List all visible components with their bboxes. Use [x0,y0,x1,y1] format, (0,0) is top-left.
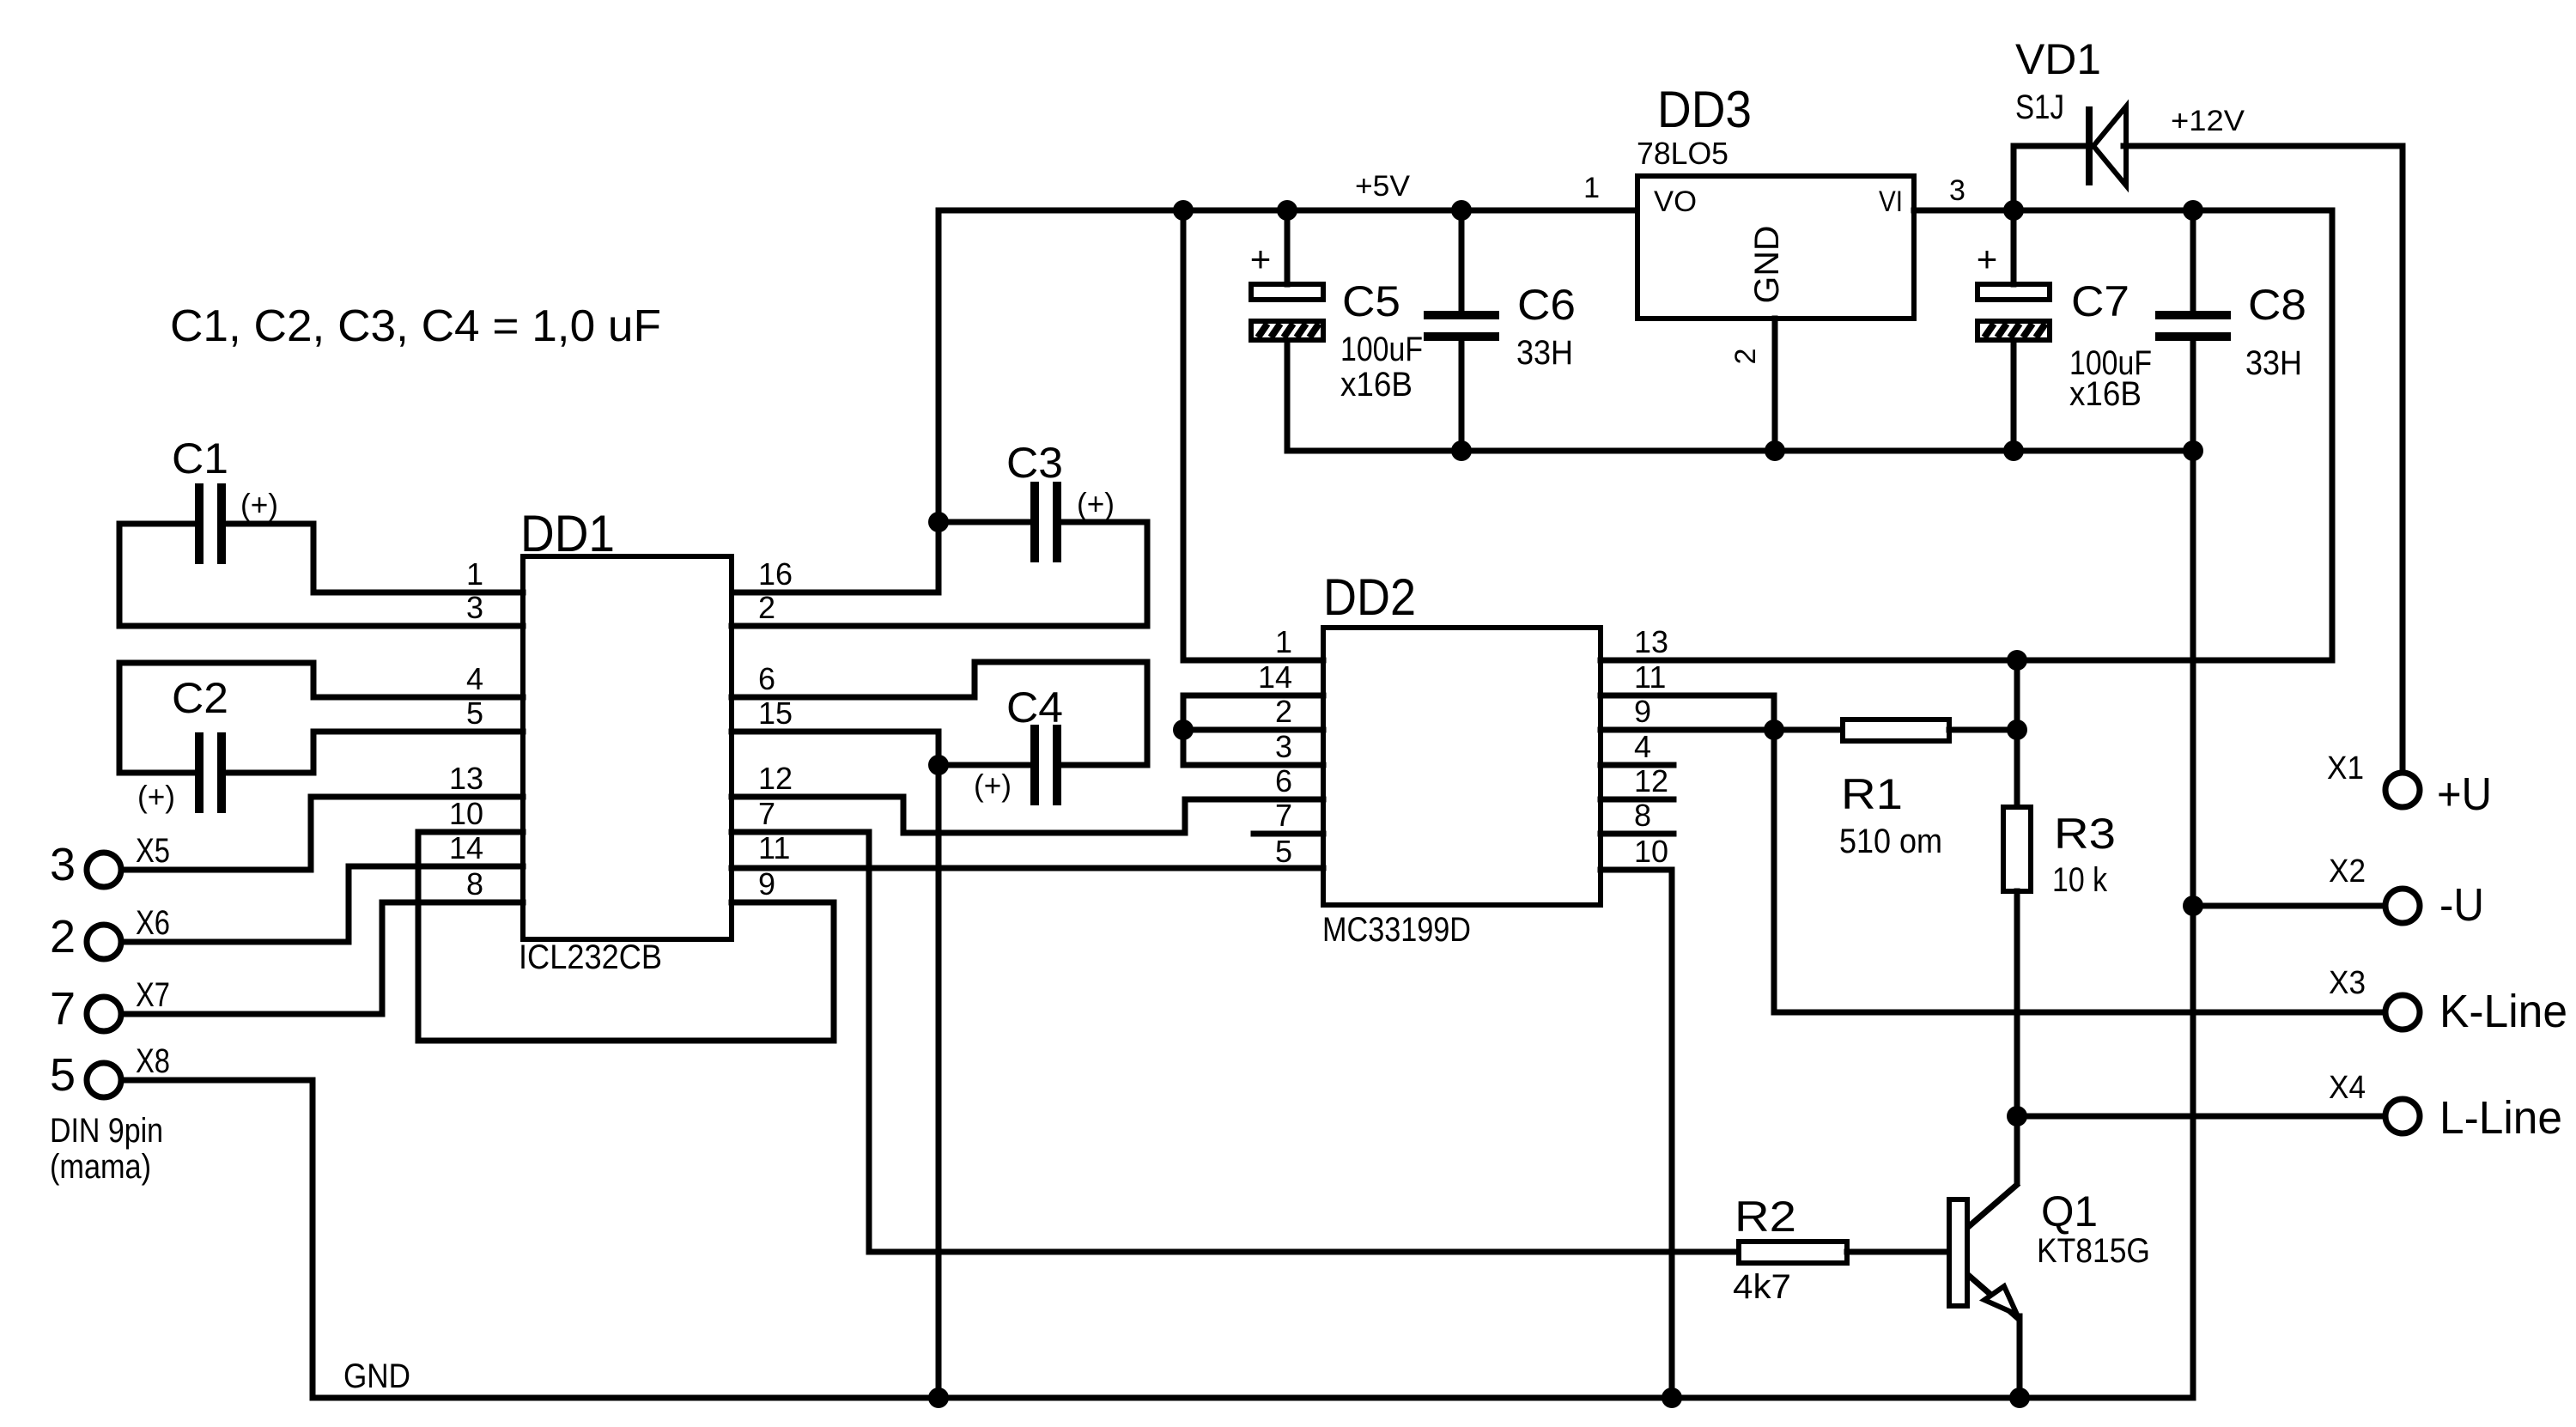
wire X8 to GND rail [125,1080,313,1398]
capacitor C7 [1978,210,2050,451]
label C8 value [2245,344,2302,382]
wire C2 left to pin4 [119,663,523,773]
terminal X5 [87,853,121,887]
wire DD2 pin9 to R1 [1601,727,1843,733]
label C7 voltage [2069,375,2142,413]
regulator DD3 [1637,176,1914,319]
label GND [343,1357,410,1395]
label C7 value [2069,344,2152,382]
label R3 value [2052,861,2108,899]
svg-text:C6: C6 [1517,281,1576,329]
label DD1 pin 6 [758,661,775,696]
label DD2 pin 7 [1275,798,1292,833]
svg-text:X1: X1 [2327,750,2364,786]
svg-text:2: 2 [1729,349,1762,365]
wire R3 riser [2014,660,2020,807]
svg-text:8: 8 [466,866,483,902]
terminal X1 [2385,773,2420,807]
label L-Line [2439,1092,2562,1144]
svg-text:100uF: 100uF [1340,331,1423,368]
svg-text:+: + [1977,239,1998,279]
svg-text:X7: X7 [136,976,170,1014]
svg-text:10: 10 [1634,834,1668,869]
wire X6 to pin14 [125,866,523,942]
svg-text:X2: X2 [2329,853,2366,890]
label DD1 pin 2 [758,590,775,625]
IC DD2 [1323,628,1601,905]
label R2 [1735,1193,1796,1241]
svg-text:GND: GND [1748,226,1786,304]
svg-text:VD1: VD1 [2015,35,2101,83]
svg-text:1: 1 [466,556,483,592]
wire R2 to base [1847,1249,1949,1255]
node VI diode branch [2003,200,2024,221]
label DIN pin 5 [50,1049,76,1101]
wire C1 left to pin3 [119,524,523,626]
svg-text:x16B: x16B [1340,366,1413,404]
label C4 polarity [974,768,1012,803]
capacitor C5 [1251,210,1323,451]
capacitor C4 [1035,725,1057,805]
svg-text:R2: R2 [1735,1193,1796,1241]
svg-text:12: 12 [1634,763,1668,799]
label DD2 pin 4 [1634,729,1651,764]
node VI C8 branch [2183,200,2203,221]
label DD1 pin 7 [758,796,775,831]
node +5V to C5 [1277,200,1297,221]
svg-text:DD1: DD1 [520,505,615,562]
wire +5V to DD2 pin1 [1183,210,1323,660]
wire C3 right to pin2 [732,522,1147,626]
svg-text:2: 2 [50,911,76,962]
label C3 polarity [1077,486,1115,521]
wire X2 from ground [2193,903,2382,909]
svg-text:4: 4 [466,661,483,696]
svg-text:X6: X6 [136,904,170,942]
svg-text:Q1: Q1 [2041,1187,2098,1236]
label DIN pin 3 [50,839,76,890]
label C7 [2071,277,2129,325]
terminal X2 [2385,889,2420,923]
label X8 [136,1042,170,1080]
label C1 [172,434,228,483]
wire C4 left tap [939,762,1035,768]
node rail C6 [1451,440,1472,461]
label R1 [1841,770,1903,818]
label C5 [1342,277,1400,325]
resistor R3 [2003,807,2031,891]
svg-text:VO: VO [1654,185,1697,218]
svg-text:11: 11 [1634,659,1666,695]
label +U [2437,768,2492,820]
wire DD2 pin10 to GND rail [1601,870,1672,1398]
wire DD3 VI input [1914,208,2332,214]
svg-text:(+): (+) [137,779,175,814]
label C6 value [1516,334,1573,372]
terminal X4 [2385,1099,2420,1133]
label DD1 pin 4 [466,661,483,696]
label DD1 pin 14 [449,830,483,865]
label X3 [2329,965,2366,1001]
label DD3 [1657,81,1752,138]
svg-text:8: 8 [1634,798,1651,833]
label DD2 pin 2 [1275,694,1292,729]
label DD2 pin 11 [1634,659,1666,695]
svg-text:C4: C4 [1006,683,1063,732]
label DD1 pin 11 [758,830,790,865]
svg-text:4k7: 4k7 [1733,1268,1791,1306]
svg-text:1: 1 [1583,172,1600,204]
label DD1 [520,505,615,562]
label DD2 pin 14 [1258,659,1292,695]
svg-text:KT815G: KT815G [2037,1232,2150,1270]
svg-text:GND: GND [343,1357,410,1395]
label DD2 pin 1 [1275,624,1292,659]
svg-text:510 om: 510 om [1839,823,1942,860]
node R1 right R3 [2007,720,2027,740]
IC DD1 [523,556,732,939]
resistor R2 [1739,1242,1847,1263]
wire DD2 pins 14-2-3 tie [1183,695,1323,765]
diode VD1 [2014,106,2403,210]
svg-text:R1: R1 [1841,770,1903,818]
label DD2 pin 9 [1634,694,1651,729]
capacitor C3 [1035,482,1057,562]
svg-text:14: 14 [1258,659,1292,695]
label C5 voltage [1340,366,1413,404]
wire X5 to pin13 [125,797,523,870]
label C2 polarity [137,779,175,814]
wire +12V to X1 [2400,146,2406,769]
wire +5V drop to DD1 pin16 [732,210,939,592]
label C6 [1517,281,1576,329]
wire DD2 pin12 stub [1601,797,1674,803]
wire DD1 pin11 to DD2 pin5 [732,865,1323,871]
svg-text:DD2: DD2 [1323,568,1416,626]
label C5 plus [1250,239,1272,279]
wire pin15 to C4 left and GND [732,732,939,1398]
svg-text:C7: C7 [2071,277,2129,325]
svg-text:C8: C8 [2248,281,2306,329]
terminal X8 [87,1063,121,1097]
svg-text:+U: +U [2437,768,2492,820]
svg-text:15: 15 [758,695,793,731]
note C1-C4 value [170,301,661,351]
label DD2 part [1322,911,1471,949]
label C7 plus [1977,239,1998,279]
wire L-Line [2017,1114,2382,1120]
label DD1 pin 10 [449,796,483,831]
label DIN gender [50,1148,151,1186]
wire DD2 pin2 [1183,727,1323,733]
svg-text:S1J: S1J [2015,88,2064,126]
label DD3 pin2 [1729,349,1762,365]
label DD2 pin 5 [1275,834,1292,869]
capacitor C6 [1424,210,1499,451]
label +12V [2171,105,2245,137]
label VD1 part [2015,88,2064,126]
svg-text:C1, C2, C3, C4 = 1,0 uF: C1, C2, C3, C4 = 1,0 uF [170,301,661,351]
label DIN type [50,1112,163,1150]
node rail C8 [2183,440,2203,461]
capacitor C1 [199,483,222,564]
svg-text:DIN 9pin: DIN 9pin [50,1112,163,1150]
label DD1 pin 1 [466,556,483,592]
node C3 tap [928,512,949,532]
svg-text:6: 6 [1275,763,1292,799]
svg-text:-U: -U [2439,879,2484,931]
node rail DD3 gnd [1765,440,1785,461]
node rail C7 [2003,440,2024,461]
svg-text:(+): (+) [974,768,1012,803]
label DD3 pin VI [1879,185,1903,218]
node DD2 pin2 tie [1173,720,1194,740]
label -U [2439,879,2484,931]
svg-text:C1: C1 [172,434,228,483]
svg-text:13: 13 [449,761,483,796]
wire +5V rail [939,208,1637,214]
node GND DD2 pin10 [1662,1388,1682,1408]
label C4 [1006,683,1063,732]
label DD3 part [1637,136,1728,171]
label X2 [2329,853,2366,890]
label DD1 pin 5 [466,695,483,731]
wire C2 right to pin5 [222,732,523,773]
svg-text:12: 12 [758,761,793,796]
label DD2 pin 12 [1634,763,1668,799]
svg-text:3: 3 [1275,729,1292,764]
wire DD2 pin7 stub [1254,831,1323,837]
label DD1 pin 15 [758,695,793,731]
svg-text:33H: 33H [1516,334,1573,372]
svg-text:5: 5 [50,1049,76,1101]
svg-text:X4: X4 [2329,1070,2366,1106]
label DD2 pin 3 [1275,729,1292,764]
label DD2 [1323,568,1416,626]
label C5 value [1340,331,1423,368]
svg-text:(mama): (mama) [50,1148,151,1186]
node X2 tap [2183,896,2203,916]
wire X7 to pin8 [125,902,523,1014]
label DD3 pin VO [1654,185,1697,218]
svg-text:ICL232CB: ICL232CB [519,938,662,976]
wire R1 to R3 node [1949,727,2017,733]
svg-text:78LO5: 78LO5 [1637,136,1728,171]
svg-text:3: 3 [1949,174,1965,207]
label X5 [136,832,170,870]
wire R3 to collector [2014,891,2020,1183]
terminal X7 [87,997,121,1031]
svg-text:1: 1 [1275,624,1292,659]
label X1 [2327,750,2364,786]
label DIN pin 2 [50,911,76,962]
svg-text:+5V: +5V [1355,170,1410,203]
wire DD3 GND pin [1772,319,1778,451]
svg-text:11: 11 [758,830,790,865]
node GND C4 leg [928,1388,949,1408]
resistor R1 [1843,720,1949,741]
node R1 left tap [1764,720,1784,740]
label DD2 pin 10 [1634,834,1668,869]
svg-text:(+): (+) [240,487,278,522]
wire DD2 pin4 stub [1601,762,1674,768]
label X4 [2329,1070,2366,1106]
label DD2 pin 13 [1634,624,1668,659]
svg-text:6: 6 [758,661,775,696]
label C3 [1006,439,1063,487]
label DD1 pin 8 [466,866,483,902]
svg-text:VI: VI [1879,185,1903,218]
label DD1 part [519,938,662,976]
svg-text:+: + [1250,239,1272,279]
label DD1 pin 16 [758,556,793,592]
wire C3 left tap [939,519,1035,525]
label DD3 pin1 [1583,172,1600,204]
label +5V [1355,170,1410,203]
label X6 [136,904,170,942]
wire DD1 pin7 to R2 [732,832,1739,1252]
label DD1 pin 3 [466,590,483,625]
svg-text:X5: X5 [136,832,170,870]
wire C8 ground drop [2190,451,2196,1398]
svg-text:X3: X3 [2329,965,2366,1001]
svg-text:2: 2 [758,590,775,625]
svg-text:R3: R3 [2054,810,2116,858]
svg-text:7: 7 [1275,798,1292,833]
label DD2 pin 8 [1634,798,1651,833]
svg-text:4: 4 [1634,729,1651,764]
svg-text:2: 2 [1275,694,1292,729]
svg-text:3: 3 [50,839,76,890]
node +5V to DD2 pin1 [1173,200,1194,221]
wire pin10 to pin9 loop [418,832,834,1041]
svg-text:7: 7 [758,796,775,831]
node emitter ground [2009,1388,2030,1408]
svg-text:X8: X8 [136,1042,170,1080]
svg-text:K-Line: K-Line [2439,986,2567,1037]
svg-text:5: 5 [1275,834,1292,869]
label K-Line [2439,986,2567,1037]
label R3 [2054,810,2116,858]
label DD2 pin 6 [1275,763,1292,799]
svg-text:9: 9 [1634,694,1651,729]
svg-text:C5: C5 [1342,277,1400,325]
svg-text:MC33199D: MC33199D [1322,911,1471,949]
wire DD1 pin12 to DD2 pin6 [732,797,1323,833]
terminal X6 [87,925,121,959]
label DD3 pin GND [1748,226,1786,304]
label VD1 [2015,35,2101,83]
label R1 value [1839,823,1942,860]
label C1 polarity [240,487,278,522]
svg-text:7: 7 [50,983,76,1035]
svg-text:L-Line: L-Line [2439,1092,2562,1144]
svg-text:14: 14 [449,830,483,865]
svg-text:C2: C2 [172,674,228,722]
svg-text:13: 13 [1634,624,1668,659]
wire DD2 pin13 to VI [1601,210,2332,660]
svg-text:DD3: DD3 [1657,81,1752,138]
label Q1 [2041,1187,2098,1236]
capacitor C8 [2155,210,2231,451]
wire bottom GND rail [313,1395,2193,1401]
wire DD2 pin8 stub [1601,831,1674,837]
wire C1 right to pin1 [222,524,523,592]
node C4 tap [928,755,949,775]
terminal X3 [2385,995,2420,1029]
svg-text:9: 9 [758,866,775,902]
svg-text:x16B: x16B [2069,375,2142,413]
svg-text:16: 16 [758,556,793,592]
transistor Q1 [1949,1183,2020,1398]
svg-text:33H: 33H [2245,344,2302,382]
label DD3 pin3 [1949,174,1965,207]
svg-text:+12V: +12V [2171,105,2245,137]
node +5V to C6 [1451,200,1472,221]
label DIN pin 7 [50,983,76,1035]
label Q1 part [2037,1232,2150,1270]
svg-text:5: 5 [466,695,483,731]
label X7 [136,976,170,1014]
label C8 [2248,281,2306,329]
svg-text:C3: C3 [1006,439,1063,487]
node pin13 R3 tap [2007,650,2027,671]
wire pin6 to C4 right [732,662,1147,765]
svg-text:(+): (+) [1077,486,1115,521]
label C2 [172,674,228,722]
label DD1 pin 12 [758,761,793,796]
wire DD2 pin11 down [1601,695,2382,1012]
label DD1 pin 9 [758,866,775,902]
label R2 value [1733,1268,1791,1306]
svg-text:10 k: 10 k [2052,861,2108,899]
node L-Line tap [2007,1106,2027,1126]
wire regulator ground rail [1287,448,2193,454]
svg-text:10: 10 [449,796,483,831]
label DD1 pin 13 [449,761,483,796]
capacitor C2 [199,732,222,813]
